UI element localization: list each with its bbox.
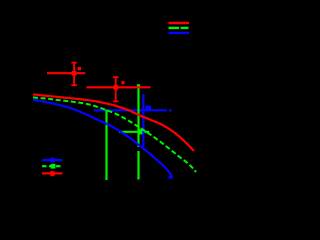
mid-left legend blue line [42, 159, 63, 161]
mid-left legend red circle marker [49, 171, 55, 177]
green vertical line 2 [137, 85, 139, 180]
green vertical line 2 top cap [137, 84, 140, 86]
top-right legend green dashed line [169, 27, 189, 29]
red data point 1 vertical error bar [71, 63, 77, 86]
mid-left legend red line [42, 172, 63, 174]
top-right legend red line [169, 22, 190, 24]
green curve (dashed) [33, 97, 196, 172]
red data point 2 vertical error bar [113, 77, 119, 101]
mid-left legend blue square marker [50, 158, 55, 163]
red data point 1 superscript square [78, 67, 81, 70]
mid-left legend green square marker [51, 164, 56, 169]
top-right legend blue line [169, 32, 190, 34]
red data point 2 superscript square [121, 81, 124, 84]
blue horizontal annotation line [94, 109, 172, 111]
blue curve end arrowhead [168, 175, 173, 179]
red data point 2 marker [113, 84, 119, 90]
blue vertical annotation line [142, 94, 144, 147]
green horizontal annotation line [119, 131, 149, 133]
blue square marker on annotation line [145, 106, 151, 111]
green vertical line 1 [105, 110, 107, 181]
red curve [33, 94, 194, 151]
blue curve [33, 100, 173, 178]
red data point 1 horizontal error bar [47, 72, 85, 74]
mid-left legend green dashed line [42, 165, 63, 167]
red data point 2 horizontal error bar [86, 86, 150, 88]
green square marker on annotation line [138, 129, 143, 134]
red data point 1 marker [71, 70, 77, 76]
